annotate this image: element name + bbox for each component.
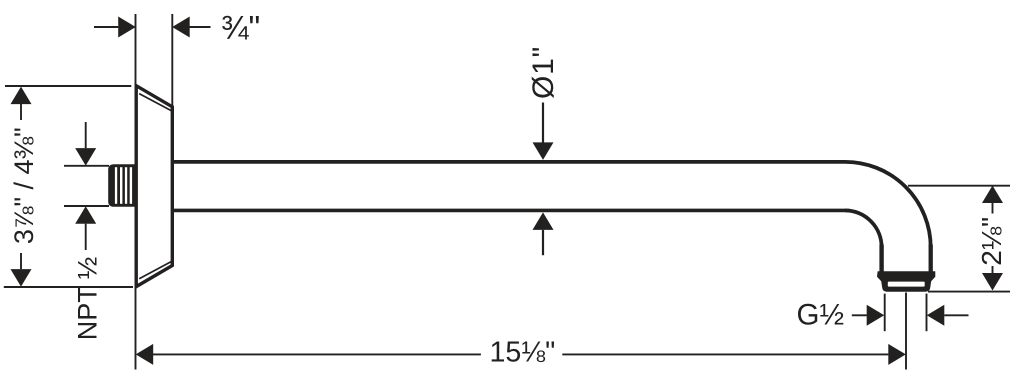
dim dia 1: upper arrowhead (533, 142, 554, 160)
shower arm top wall (171, 160, 845, 164)
svg-text:NPT ½: NPT ½ (72, 257, 102, 341)
dim 3 7/8 - 4 3/8: bottom arrowhead (11, 269, 32, 287)
outlet fitting groove (888, 282, 925, 287)
shower arm bend inner arc (845, 210, 882, 247)
dim G 1/2: left extension line (884, 294, 886, 332)
dim G 1/2: right extension line (926, 294, 928, 332)
dim 15 1/8: right arrowhead (888, 344, 906, 365)
dim 3/4: left extension line (135, 14, 137, 85)
dim dia 1: lower arrowhead (533, 212, 554, 230)
dim 15 1/8: right line (562, 353, 888, 355)
dim NPT 1/2: top extension line (64, 165, 109, 167)
dim 3 7/8 - 4 3/8: top extension line (5, 85, 131, 87)
svg-text:Ø1": Ø1" (527, 46, 560, 99)
flange rim inner line top (139, 94, 171, 111)
dim dia 1: upper line (542, 103, 544, 144)
svg-text:3⅞" / 4⅜": 3⅞" / 4⅜" (9, 127, 39, 244)
dim NPT 1/2: upper line (85, 122, 87, 148)
dim 3 7/8 - 4 3/8: bottom extension line (4, 286, 133, 288)
nipple thread slot 1 (115, 167, 117, 204)
dim 2 1/8: bottom extension line (928, 291, 1010, 293)
dim 3 7/8 - 4 3/8: top arrowhead (11, 87, 32, 105)
dim 2 1/8: bottom arrowhead (982, 273, 1003, 291)
dim 15 1/8: left extension line (135, 288, 137, 370)
dim 3/4: right tail line (190, 26, 211, 28)
dim G 1/2: left tail line (852, 314, 867, 316)
dim NPT 1/2: upper arrowhead (75, 148, 96, 166)
svg-text:2⅛": 2⅛" (976, 217, 1007, 266)
dim 3/4: right arrowhead (172, 17, 190, 38)
nipple thread slot 3 (125, 167, 127, 204)
dim G 1/2: left arrowhead (867, 305, 885, 326)
shower arm vertical right wall (929, 245, 933, 272)
nipple thread slot 4 (130, 167, 132, 204)
dim G 1/2: right tail line (944, 314, 968, 316)
dim 3 7/8 - 4 3/8: bottom line segment (20, 253, 22, 269)
dim NPT 1/2: bottom extension line (64, 205, 109, 207)
svg-text:¾": ¾" (221, 9, 260, 46)
dim 2 1/8: top arrowhead (982, 186, 1003, 204)
dim 3/4: left arrowhead (118, 17, 136, 38)
dim NPT 1/2: lower arrowhead (75, 206, 96, 224)
dim 3/4: left tail line (94, 26, 118, 28)
dim 15 1/8: outlet centre line (905, 293, 907, 370)
dim 3 7/8 - 4 3/8: top line segment (20, 104, 22, 120)
shower arm vertical left wall (879, 245, 883, 272)
dim 3/4: right extension line (171, 14, 173, 106)
dim G 1/2: right arrowhead (927, 305, 945, 326)
dim 2 1/8: top extension line (908, 185, 1010, 187)
dim dia 1: lower line (542, 230, 544, 255)
nipple thread slot 2 (120, 167, 122, 204)
shower arm bottom wall (171, 209, 845, 213)
dim 2 1/8: upper line (992, 203, 994, 214)
threaded nipple NPT 1/2 body (108, 164, 136, 207)
dim 2 1/8: lower line (992, 266, 994, 274)
outlet fitting G1/2 (877, 271, 935, 292)
svg-text:G½: G½ (797, 299, 845, 332)
dim NPT 1/2: lower line (85, 224, 87, 250)
flange rim inner line bottom (139, 262, 171, 279)
shower arm bend outer arc (845, 162, 931, 247)
dim 15 1/8: left arrowhead (136, 344, 154, 365)
dim 15 1/8: left line (153, 353, 481, 355)
svg-text:15⅛": 15⅛" (489, 336, 555, 368)
wall flange (escutcheon) outline (136, 86, 172, 287)
